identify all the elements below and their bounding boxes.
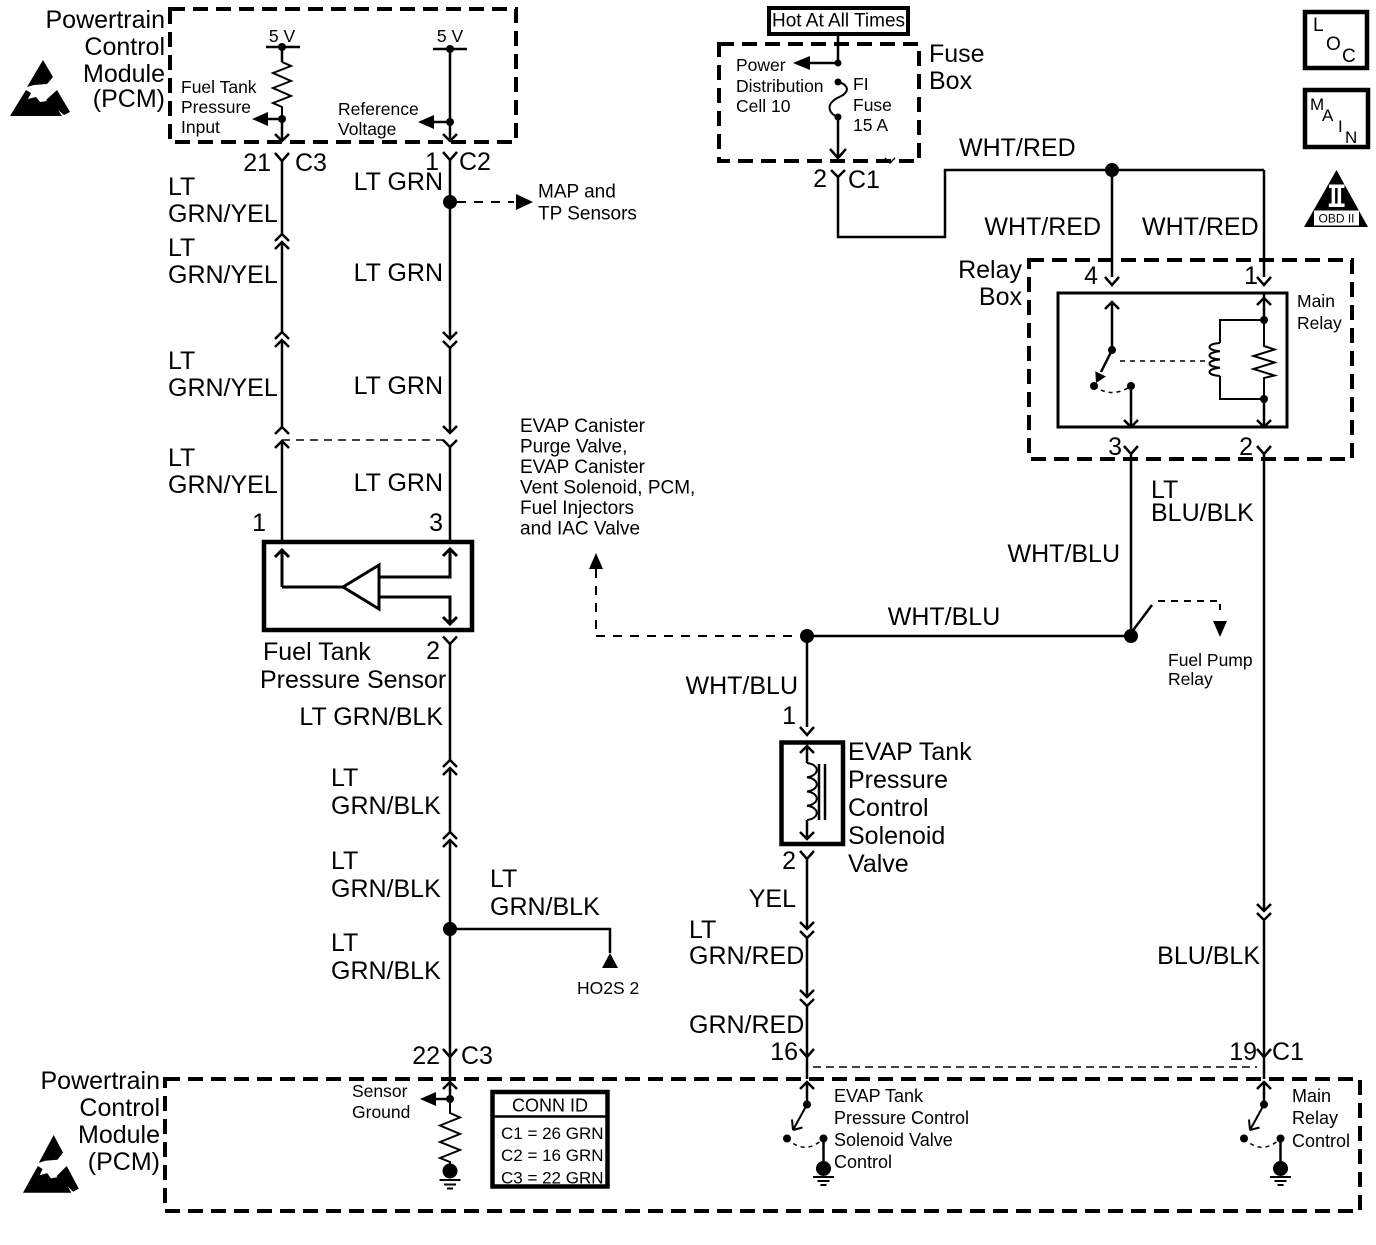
svg-text:GRN/BLK: GRN/BLK — [331, 792, 441, 820]
svg-text:Main: Main — [1297, 291, 1335, 311]
svg-text:Input: Input — [181, 117, 220, 137]
svg-text:Fuel Injectors: Fuel Injectors — [520, 498, 634, 519]
svg-text:LT: LT — [490, 865, 517, 893]
svg-text:GRN/YEL: GRN/YEL — [168, 261, 278, 289]
svg-text:WHT/BLU: WHT/BLU — [686, 672, 799, 700]
svg-text:LT: LT — [168, 234, 195, 262]
svg-text:Relay: Relay — [1297, 313, 1342, 333]
svg-text:3: 3 — [1108, 433, 1122, 461]
svg-text:Valve: Valve — [848, 850, 909, 878]
svg-text:LT GRN: LT GRN — [354, 469, 443, 497]
svg-text:LT GRN/BLK: LT GRN/BLK — [299, 703, 443, 731]
svg-text:LT GRN: LT GRN — [354, 372, 443, 400]
svg-text:EVAP Canister: EVAP Canister — [520, 457, 646, 478]
svg-text:Power: Power — [736, 55, 786, 75]
svg-text:Ground: Ground — [352, 1102, 410, 1122]
svg-text:Relay: Relay — [1292, 1108, 1338, 1128]
svg-text:3: 3 — [429, 509, 443, 537]
svg-text:LT: LT — [331, 764, 358, 792]
svg-text:L: L — [1313, 15, 1324, 36]
svg-text:WHT/BLU: WHT/BLU — [1008, 540, 1121, 568]
svg-text:2: 2 — [813, 165, 827, 193]
svg-text:Fuel Pump: Fuel Pump — [1168, 650, 1253, 670]
svg-text:16: 16 — [770, 1038, 798, 1066]
svg-text:GRN/YEL: GRN/YEL — [168, 471, 278, 499]
svg-text:I: I — [1338, 117, 1343, 136]
svg-text:LT: LT — [168, 444, 195, 472]
svg-text:2: 2 — [782, 847, 796, 875]
svg-text:WHT/RED: WHT/RED — [959, 134, 1076, 162]
svg-text:MAP and: MAP and — [538, 182, 616, 203]
svg-text:Fuse: Fuse — [929, 40, 985, 68]
svg-text:YEL: YEL — [749, 885, 796, 913]
svg-text:Pressure Control: Pressure Control — [834, 1108, 969, 1128]
svg-text:Box: Box — [929, 67, 973, 95]
svg-text:LT: LT — [168, 347, 195, 375]
svg-text:BLU/BLK: BLU/BLK — [1157, 942, 1260, 970]
svg-text:Control: Control — [84, 33, 165, 61]
svg-text:Pressure Sensor: Pressure Sensor — [260, 666, 446, 694]
svg-text:Pressure: Pressure — [848, 766, 948, 794]
svg-text:Sensor: Sensor — [352, 1081, 408, 1101]
svg-text:C1: C1 — [1272, 1038, 1304, 1066]
svg-text:Module: Module — [78, 1121, 160, 1149]
svg-text:Relay: Relay — [1168, 669, 1213, 689]
svg-text:Voltage: Voltage — [338, 119, 396, 139]
svg-text:LT: LT — [689, 916, 716, 944]
svg-text:Fuel Tank: Fuel Tank — [263, 638, 371, 666]
svg-text:C: C — [1342, 46, 1356, 67]
svg-text:Box: Box — [979, 283, 1023, 311]
svg-text:EVAP Tank: EVAP Tank — [834, 1086, 924, 1106]
svg-text:LT GRN: LT GRN — [354, 259, 443, 287]
svg-text:5 V: 5 V — [437, 26, 464, 46]
svg-text:Fuse: Fuse — [853, 95, 892, 115]
svg-text:GRN/RED: GRN/RED — [689, 1011, 804, 1039]
svg-text:Pressure: Pressure — [181, 97, 251, 117]
svg-text:FI: FI — [853, 74, 869, 94]
svg-text:C2 = 16 GRN: C2 = 16 GRN — [501, 1146, 604, 1165]
svg-text:2: 2 — [426, 637, 440, 665]
svg-text:CONN ID: CONN ID — [512, 1096, 588, 1116]
svg-text:Cell 10: Cell 10 — [736, 96, 791, 116]
svg-text:GRN/YEL: GRN/YEL — [168, 374, 278, 402]
svg-text:(PCM): (PCM) — [88, 1148, 160, 1176]
svg-text:(PCM): (PCM) — [93, 85, 165, 113]
svg-text:EVAP Tank: EVAP Tank — [848, 738, 972, 766]
svg-text:Fuel Tank: Fuel Tank — [181, 77, 257, 97]
svg-text:O: O — [1326, 34, 1341, 55]
svg-text:Control: Control — [834, 1152, 892, 1172]
svg-text:Control: Control — [79, 1094, 160, 1122]
svg-text:BLU/BLK: BLU/BLK — [1151, 499, 1254, 527]
svg-text:A: A — [1322, 106, 1334, 125]
svg-text:19: 19 — [1229, 1038, 1257, 1066]
svg-text:WHT/BLU: WHT/BLU — [888, 603, 1001, 631]
svg-text:WHT/RED: WHT/RED — [984, 213, 1101, 241]
svg-text:4: 4 — [1084, 262, 1098, 290]
svg-text:Main: Main — [1292, 1086, 1331, 1106]
svg-text:Relay: Relay — [958, 256, 1022, 284]
svg-text:2: 2 — [1239, 433, 1253, 461]
svg-text:HO2S 2: HO2S 2 — [577, 978, 639, 998]
svg-text:Solenoid: Solenoid — [848, 822, 945, 850]
svg-text:C1: C1 — [848, 166, 880, 194]
svg-text:C3: C3 — [461, 1042, 493, 1070]
svg-text:LT: LT — [168, 173, 195, 201]
svg-text:GRN/RED: GRN/RED — [689, 942, 804, 970]
svg-text:GRN/BLK: GRN/BLK — [331, 875, 441, 903]
svg-text:Control: Control — [1292, 1131, 1350, 1151]
svg-text:Distribution: Distribution — [736, 76, 824, 96]
svg-text:and IAC Valve: and IAC Valve — [520, 519, 640, 540]
svg-text:Powertrain: Powertrain — [41, 1067, 161, 1095]
svg-text:GRN/BLK: GRN/BLK — [331, 957, 441, 985]
svg-text:Reference: Reference — [338, 99, 419, 119]
svg-text:LT: LT — [331, 929, 358, 957]
svg-text:LT: LT — [331, 847, 358, 875]
svg-text:22: 22 — [412, 1042, 440, 1070]
svg-text:1: 1 — [782, 702, 796, 730]
svg-text:GRN/BLK: GRN/BLK — [490, 893, 600, 921]
svg-text:1: 1 — [1244, 262, 1258, 290]
svg-text:C2: C2 — [459, 148, 491, 176]
svg-text:EVAP Canister: EVAP Canister — [520, 416, 646, 437]
svg-text:C1 = 26 GRN: C1 = 26 GRN — [501, 1124, 604, 1143]
svg-text:Purge Valve,: Purge Valve, — [520, 437, 627, 458]
svg-text:N: N — [1345, 128, 1357, 147]
svg-text:Hot At All Times: Hot At All Times — [772, 11, 905, 32]
svg-text:GRN/YEL: GRN/YEL — [168, 200, 278, 228]
svg-text:15 A: 15 A — [853, 115, 888, 135]
svg-text:OBD II: OBD II — [1318, 212, 1354, 226]
svg-text:Vent Solenoid, PCM,: Vent Solenoid, PCM, — [520, 478, 695, 499]
svg-text:Module: Module — [83, 60, 165, 88]
svg-text:LT GRN: LT GRN — [354, 168, 443, 196]
svg-text:WHT/RED: WHT/RED — [1142, 213, 1259, 241]
svg-text:Control: Control — [848, 794, 929, 822]
svg-text:Powertrain: Powertrain — [46, 6, 166, 34]
svg-text:TP Sensors: TP Sensors — [538, 204, 637, 225]
svg-text:C3 = 22 GRN: C3 = 22 GRN — [501, 1169, 604, 1188]
svg-text:Solenoid Valve: Solenoid Valve — [834, 1130, 953, 1150]
svg-text:21: 21 — [243, 149, 271, 177]
svg-text:1: 1 — [252, 509, 266, 537]
svg-text:5 V: 5 V — [269, 26, 296, 46]
svg-text:C3: C3 — [295, 149, 327, 177]
